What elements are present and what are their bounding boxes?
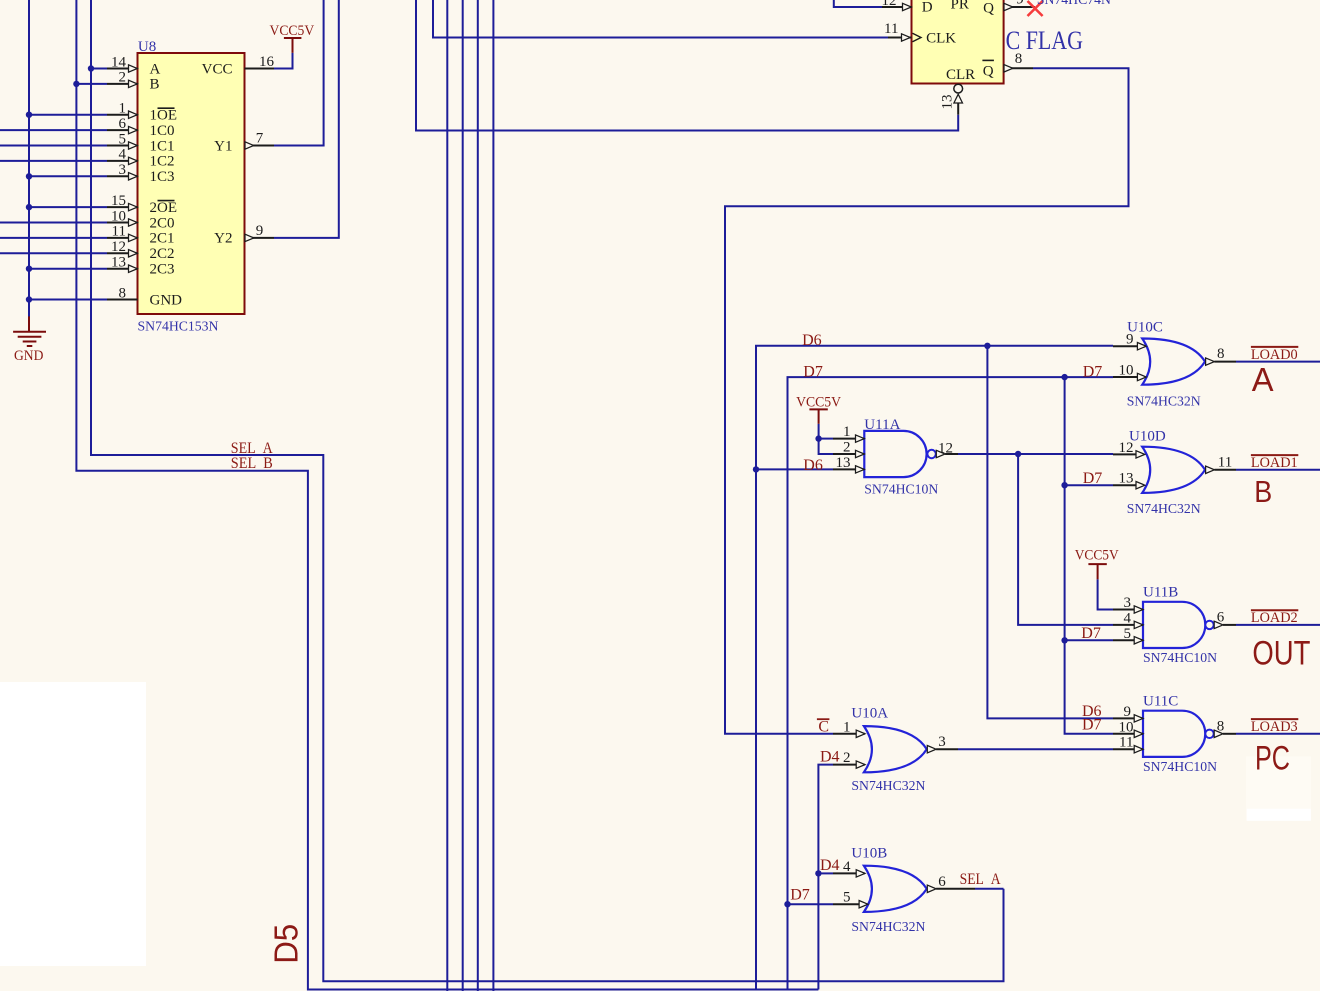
wire: bus line 2 x=463 xyxy=(462,0,464,991)
U8 pin 6 (1C0) xyxy=(107,116,138,134)
node: junction GND rail at 1OE xyxy=(26,112,32,118)
wire: bus line 4 x=493 xyxy=(492,0,494,991)
svg-text:1: 1 xyxy=(119,101,127,117)
svg-text:D6: D6 xyxy=(802,332,822,349)
or-gate U10B SN74HC32N xyxy=(833,845,975,935)
wire: U8 pin 2C0 from left edge xyxy=(0,222,107,224)
svg-text:SN74HC10N: SN74HC10N xyxy=(864,482,938,497)
svg-text:D7: D7 xyxy=(803,363,823,380)
svg-text:C: C xyxy=(818,718,829,735)
svg-text:13: 13 xyxy=(940,95,956,110)
wire: U8 pin 2C3 stub xyxy=(29,268,107,270)
svg-text:13: 13 xyxy=(836,455,851,471)
svg-text:Y1: Y1 xyxy=(214,138,232,154)
svg-text:VCC5V: VCC5V xyxy=(270,23,315,39)
svg-text:3: 3 xyxy=(119,162,127,178)
svg-text:10: 10 xyxy=(111,208,126,224)
svg-text:Q: Q xyxy=(983,63,994,79)
node: junction GND rail at 2OE xyxy=(26,204,32,210)
svg-text:PC: PC xyxy=(1255,739,1290,777)
svg-text:VCC5V: VCC5V xyxy=(1075,548,1119,564)
svg-text:5: 5 xyxy=(843,890,851,906)
svg-text:2C2: 2C2 xyxy=(150,246,175,262)
wire: SEL_A net (vertical x=91, right at y=455, down x=323, bottom run, up to U10B out) xyxy=(91,0,1004,981)
U8 pin 15 (2OE) xyxy=(107,193,138,211)
node: junction D4 at U10B pin 4 xyxy=(815,870,821,876)
wire: D7 branch to U11C pin 10 xyxy=(1065,377,1113,734)
svg-text:11: 11 xyxy=(1119,735,1133,751)
svg-text:12: 12 xyxy=(882,0,897,9)
node: junction SEL_B at U8 pin B xyxy=(73,81,79,87)
svg-text:CLK: CLK xyxy=(926,30,956,46)
svg-text:14: 14 xyxy=(111,54,127,70)
wire: LOAD1 net to right edge xyxy=(1236,469,1320,471)
svg-text:Q: Q xyxy=(983,1,994,17)
nand-gate U11C SN74HC10N xyxy=(1113,694,1236,775)
wire: U8 pin 1C0 from left edge xyxy=(0,129,107,131)
white patch bottom-left (sheet edge) xyxy=(0,682,146,966)
svg-text:A: A xyxy=(150,61,161,77)
svg-text:8: 8 xyxy=(119,285,127,301)
svg-text:6: 6 xyxy=(1217,609,1225,625)
wire: D6 stub to U11A pin 13 xyxy=(756,468,833,470)
svg-text:SN74HC153N: SN74HC153N xyxy=(138,320,219,335)
svg-text:SN74HC32N: SN74HC32N xyxy=(851,779,925,794)
svg-text:D6: D6 xyxy=(803,457,823,474)
svg-text:9: 9 xyxy=(1016,0,1024,7)
wire: bus line 1 x=447 xyxy=(446,0,448,991)
svg-text:D7: D7 xyxy=(1083,363,1103,380)
IC U8 SN74HC153N body xyxy=(138,53,245,314)
svg-text:10: 10 xyxy=(1119,719,1134,735)
wire: U10B output SEL_A run xyxy=(975,888,1004,890)
svg-text:4: 4 xyxy=(119,147,127,163)
wire: U8 pin A stub xyxy=(91,68,107,70)
wire: D6 net vertical and run to U10C pin 9 xyxy=(756,346,1113,990)
or-gate U10D SN74HC32N xyxy=(1113,429,1236,517)
wire: U8 pin 1C3 stub xyxy=(29,175,107,177)
wire: U8 pin 1C1 from left edge xyxy=(0,145,107,147)
wire: CLK net from top to flip-flop pin 11 xyxy=(433,0,888,38)
power VCC5V symbol at U8 xyxy=(270,23,315,53)
svg-text:U10D: U10D xyxy=(1129,429,1166,445)
svg-text:B: B xyxy=(1254,474,1272,509)
flip-flop pin 8 (Q-bar output) xyxy=(1004,51,1033,72)
svg-text:D7: D7 xyxy=(1082,717,1102,734)
svg-text:11: 11 xyxy=(884,21,898,37)
wire: D7 stub to U11B pin 5 xyxy=(1065,639,1113,641)
nand-gate U11A SN74HC10N xyxy=(833,417,958,497)
U8 2OE overline xyxy=(158,200,175,202)
wire: U8 pin 2C1 from left edge xyxy=(0,237,107,239)
wire: SEL_B net (vertical x=76, right at y=470.7, down x=308, bottom run y=989.5) xyxy=(76,0,818,990)
svg-text:SN74HC32N: SN74HC32N xyxy=(1127,502,1201,517)
svg-text:U10B: U10B xyxy=(851,845,887,861)
svg-text:11: 11 xyxy=(1218,454,1232,470)
net label LOAD2 with overbar xyxy=(1251,610,1298,626)
U8 pin 5 (1C1) xyxy=(107,131,138,149)
U8 pin 8 (GND) xyxy=(107,285,138,301)
svg-text:VCC: VCC xyxy=(202,61,233,77)
wire: U8 VCC to VCC5V stem xyxy=(274,53,293,69)
wire: GND vertical rail x=29 xyxy=(28,0,30,317)
svg-text:D5: D5 xyxy=(268,924,305,964)
svg-text:2C3: 2C3 xyxy=(150,262,175,278)
svg-text:1C3: 1C3 xyxy=(150,169,175,185)
svg-text:7: 7 xyxy=(256,131,264,147)
flip-flop pin names xyxy=(922,0,994,83)
nand-gate U11B SN74HC10N xyxy=(1113,585,1236,667)
or-gate U10A SN74HC32N xyxy=(833,706,958,794)
svg-text:1C2: 1C2 xyxy=(150,154,175,170)
U8 pin names xyxy=(150,61,233,308)
wire: U8 pin GND stub xyxy=(29,299,107,301)
wire: bus line 3 x=478 xyxy=(477,0,479,991)
svg-text:5: 5 xyxy=(119,131,127,147)
white patch right (sheet edge) xyxy=(1246,757,1311,809)
flip-flop pin 12 (D) xyxy=(882,0,912,11)
wire: flip-flop Q-bar to U10A pin 1 xyxy=(725,68,1129,734)
U8 pin 3 (1C3) xyxy=(107,162,138,180)
svg-text:12: 12 xyxy=(111,239,126,255)
wire: U8 pin 1OE stub xyxy=(29,114,107,116)
svg-text:U11B: U11B xyxy=(1143,585,1178,601)
node: junction VCC5V at U11A pin 1 xyxy=(815,435,821,441)
wire: D6 branch to U11C pin 9 xyxy=(987,346,1113,719)
U8 pin 2 (B) xyxy=(107,70,138,88)
flip-flop pin 9 (Q output) with no-ERC cross xyxy=(1004,0,1035,11)
node: junction SEL_A at U8 pin A xyxy=(88,65,94,71)
wire: LOAD0 net to right edge xyxy=(1236,361,1320,363)
svg-text:1C0: 1C0 xyxy=(150,123,175,139)
wire: LOAD2 net to right edge xyxy=(1236,624,1320,626)
svg-text:D7: D7 xyxy=(1083,470,1103,487)
node: junction D6 branch xyxy=(984,343,990,349)
svg-text:1: 1 xyxy=(843,719,851,735)
wire: D4 net vertical from U10A pin 2 xyxy=(818,765,833,990)
svg-text:2C0: 2C0 xyxy=(150,215,175,231)
svg-text:5: 5 xyxy=(1124,626,1132,642)
svg-text:SN74HC10N: SN74HC10N xyxy=(1143,760,1217,775)
wire: D7 stub to U10B pin 5 xyxy=(788,903,834,905)
svg-text:8: 8 xyxy=(1217,346,1225,362)
red X no-connect marker on Q xyxy=(1028,1,1043,16)
node: junction D7 at U11B pin 5 xyxy=(1061,637,1067,643)
node: junction GND rail at 1C3 xyxy=(26,173,32,179)
wire: U8 pin 2OE stub xyxy=(29,206,107,208)
U8 pin 11 (2C1) xyxy=(107,224,138,242)
svg-text:SEL B: SEL B xyxy=(231,455,273,472)
svg-text:2: 2 xyxy=(843,440,851,456)
svg-text:D7: D7 xyxy=(1081,625,1101,642)
svg-text:D7: D7 xyxy=(790,887,810,904)
wire: U11A output to U10D pin 12 xyxy=(958,453,1113,455)
svg-text:1C1: 1C1 xyxy=(150,138,175,154)
node: junction D6 at U11A pin 13 xyxy=(753,466,759,472)
power VCC5V symbol at U11A xyxy=(796,394,841,423)
flip-flop pin 11 (CLK) xyxy=(884,21,921,42)
wire: U11A pin 1 stub xyxy=(819,438,833,440)
svg-text:PR: PR xyxy=(951,0,969,13)
U8 pin 12 (2C2) xyxy=(107,239,138,257)
svg-text:GND: GND xyxy=(14,348,44,364)
svg-text:9: 9 xyxy=(256,223,264,239)
svg-text:SN74HC10N: SN74HC10N xyxy=(1143,651,1217,666)
svg-text:U10C: U10C xyxy=(1127,319,1163,335)
svg-text:B: B xyxy=(150,77,160,93)
U8 pin 10 (2C0) xyxy=(107,208,138,226)
wire: CLR net from top to flip-flop pin 13 xyxy=(416,0,958,131)
wire: VCC5V to U11B pin 3 xyxy=(1098,579,1113,609)
svg-text:SEL A: SEL A xyxy=(960,871,1001,888)
U8 pin 1 (1OE) xyxy=(107,101,138,119)
svg-text:2: 2 xyxy=(843,750,851,766)
svg-text:D4: D4 xyxy=(820,857,840,874)
net label LOAD1 with overbar xyxy=(1251,455,1298,471)
svg-text:3: 3 xyxy=(938,734,946,750)
wire: U8 pin 2C2 from left edge xyxy=(0,252,107,254)
flip-flop Q-bar overline xyxy=(982,59,994,61)
wire: D7 stub to U10D pin 13 xyxy=(1065,484,1113,486)
node: junction U11A output branch xyxy=(1015,451,1021,457)
svg-text:13: 13 xyxy=(111,255,126,271)
svg-text:6: 6 xyxy=(119,116,127,132)
svg-text:LOAD3: LOAD3 xyxy=(1251,719,1298,735)
flip-flop pin 13 (CLR, active low) bubble and arrow xyxy=(940,84,963,115)
svg-text:2OE: 2OE xyxy=(150,200,178,216)
svg-text:LOAD1: LOAD1 xyxy=(1251,455,1298,471)
svg-text:10: 10 xyxy=(1119,363,1134,379)
svg-text:SN74HC74N: SN74HC74N xyxy=(1037,0,1111,8)
svg-text:U11A: U11A xyxy=(864,417,900,433)
svg-text:6: 6 xyxy=(938,874,946,890)
svg-text:9: 9 xyxy=(1124,704,1132,720)
svg-text:OUT: OUT xyxy=(1252,634,1310,672)
U8 pin 13 (2C3) xyxy=(107,255,138,273)
U8 1OE overline xyxy=(158,107,175,109)
wire: U8 pin 1C2 from left edge xyxy=(0,160,107,162)
U8 pin 14 (A) xyxy=(107,54,138,72)
wire: U8 Y2 output to top xyxy=(274,0,339,238)
svg-text:3: 3 xyxy=(1124,595,1132,611)
svg-text:2: 2 xyxy=(119,70,127,86)
svg-text:1OE: 1OE xyxy=(150,108,178,124)
wire: U10A output to U11C pin 11 xyxy=(958,748,1113,750)
svg-text:2C1: 2C1 xyxy=(150,231,175,247)
svg-text:U10A: U10A xyxy=(851,706,888,722)
svg-text:1: 1 xyxy=(843,424,851,440)
svg-text:13: 13 xyxy=(1119,471,1134,487)
svg-text:16: 16 xyxy=(259,54,275,70)
svg-text:8: 8 xyxy=(1217,718,1225,734)
svg-text:C FLAG: C FLAG xyxy=(1006,26,1083,55)
U8 pin 16 (VCC) xyxy=(245,54,275,70)
svg-text:D4: D4 xyxy=(820,749,840,766)
svg-text:U8: U8 xyxy=(138,39,156,55)
wire: flip-flop D input from top xyxy=(834,0,882,7)
svg-text:SN74HC32N: SN74HC32N xyxy=(851,920,925,935)
node: junction GND rail at 2C3 xyxy=(26,266,32,272)
svg-text:15: 15 xyxy=(111,193,126,209)
node: junction D7 branch xyxy=(1061,374,1067,380)
ground GND symbol xyxy=(13,316,46,363)
svg-text:11: 11 xyxy=(112,224,126,240)
svg-text:VCC5V: VCC5V xyxy=(796,394,841,410)
node: junction D7 at U10D pin 13 xyxy=(1061,482,1067,488)
svg-text:U11C: U11C xyxy=(1143,694,1178,710)
wire: U8 Y1 output to top xyxy=(274,0,324,146)
U8 pin 4 (1C2) xyxy=(107,147,138,165)
net label LOAD0 with overbar xyxy=(1251,347,1298,363)
wire: D4 stub to U10B pin 4 xyxy=(818,872,833,874)
net label C-bar (U10A pin 1) xyxy=(817,718,830,735)
svg-text:SN74HC32N: SN74HC32N xyxy=(1127,395,1201,410)
svg-text:A: A xyxy=(1252,361,1274,398)
svg-text:GND: GND xyxy=(150,292,183,308)
U8 pin 7 (Y1 output) xyxy=(245,131,275,150)
svg-text:Y2: Y2 xyxy=(214,231,232,247)
wire: U11A output branch to U11B pin 4 xyxy=(1018,454,1113,625)
wire: LOAD3 net to right edge xyxy=(1236,733,1320,735)
svg-text:4: 4 xyxy=(1124,610,1132,626)
wire: VCC5V to U11A pins 1 and 2 xyxy=(819,424,833,454)
svg-text:LOAD2: LOAD2 xyxy=(1251,610,1298,626)
power VCC5V symbol at U11B xyxy=(1075,548,1119,580)
svg-text:4: 4 xyxy=(843,859,851,875)
wire: D7 net vertical and run to U10C pin 10 xyxy=(788,377,1114,989)
or-gate U10C SN74HC32N xyxy=(1113,319,1236,409)
net label LOAD3 with overbar xyxy=(1251,719,1298,735)
svg-text:D: D xyxy=(922,0,933,16)
flip-flop U? SN74HC74N body xyxy=(912,0,1004,84)
node: junction D7 at U10B pin 5 xyxy=(784,901,790,907)
wire: U8 pin B stub xyxy=(76,83,107,85)
svg-text:12: 12 xyxy=(938,441,953,457)
node: junction GND rail at pin 8 xyxy=(26,296,32,302)
svg-text:CLR: CLR xyxy=(946,67,975,83)
U8 pin 9 (Y2 output) xyxy=(245,223,275,242)
